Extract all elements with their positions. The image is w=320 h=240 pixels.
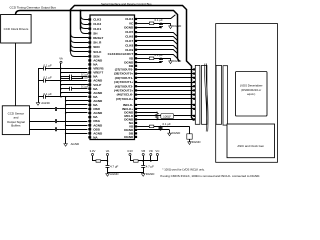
svg-text:DGND: DGND [146,172,155,176]
svg-text:CLK5: CLK5 [125,30,133,34]
ferrite bead FB3 [149,125,154,128]
receiver board boundary box [216,24,278,163]
junction VA rail rows [60,68,62,70]
ferrite bead FB4 [96,160,101,162]
svg-text:AGND: AGND [41,101,50,105]
wire R1 top row [137,112,157,114]
wire DGND pin row [137,27,161,29]
wire bead to DGND corner 2 [154,58,171,60]
svg-text:AGND: AGND [71,142,80,146]
svg-text:If using CMOS INCLK, 100Ω is r: If using CMOS INCLK, 100Ω is removed and… [160,174,260,178]
wire DGND pin row 2 [137,62,161,64]
svg-text:3.3V: 3.3V [127,149,133,153]
svg-text:0.1 µF: 0.1 µF [155,18,163,22]
cable ferrule F2 [216,65,221,124]
wire row 76.6 to pin [81,76,88,78]
CCD Sensor and Output Signal Buffers block [2,106,29,135]
wire VA rail to AGND pin row [61,84,88,86]
svg-text:VA: VA [106,149,110,153]
wire R1 bottom row to connector [137,119,195,121]
capacitor C1 0.1uF [159,23,163,27]
ground DGND (VD) [169,59,182,64]
IC left pin pads [88,18,91,138]
junction R1 [156,112,158,114]
ground AGND (rail) [36,101,50,105]
IC right pin labels [108,17,134,139]
LVDS Deserializer block [236,72,268,117]
ground AGND (rail2) [64,142,79,146]
wire VB down [143,156,145,164]
svg-text:VA: VA [59,57,63,61]
capacitor C14 4.7uF [106,163,110,170]
svg-text:equiv.): equiv.) [247,92,255,96]
terminal VD (bottom) [149,149,153,156]
svg-text:and: and [13,115,18,119]
IC right pin pads [135,18,138,138]
wire MCLK row to connector [137,115,195,117]
capacitor C4 4.7uF [187,126,192,140]
ground DGND (supply) [141,172,154,176]
wire VA down [107,156,109,164]
svg-text:VD: VD [149,149,153,153]
wire C6 to VCLP pin [51,80,88,82]
wire C7 row to AGND pin [51,96,88,98]
svg-text:SCLK: SCLK [93,50,102,54]
wire VC pin [137,23,149,25]
capacitor C3 0.1uF [159,126,163,129]
svg-text:0.1 µF: 0.1 µF [155,53,163,57]
connector J2 [223,66,228,125]
wire C10 to pin [81,88,88,90]
wire 3.3V-2 to bead5 [130,156,132,161]
AGND rail 2 [65,97,67,143]
ASIC and Clock Gen block [227,124,275,158]
ground DGND (VC) [169,24,182,29]
svg-text:CLK6: CLK6 [125,35,133,39]
analog-digital ground tie wire [108,172,144,174]
svg-text:VC: VC [155,149,159,153]
serial bus taps to RESET SH_R SDO SCLK SEN [71,33,89,56]
twisted pair cable [205,64,209,132]
wire VA rail to NA pin row [61,92,88,94]
svg-text:0.1 µF: 0.1 µF [44,92,52,96]
svg-text:* 100Ω used for LVDS INCLK onl: * 100Ω used for LVDS INCLK only. [162,168,204,172]
svg-text:CCD Timing Generator Output Bu: CCD Timing Generator Output Bus [10,5,57,9]
svg-text:4.7 µF: 4.7 µF [146,165,154,169]
CCD timing bus wire [16,11,180,62]
terminal VA (bottom) [106,149,110,156]
bus taps to CLK3 CLK2 CLK1 SH [81,15,89,34]
terminal 3.3V (analog) [90,149,96,156]
ground DGND (VD2) [168,131,181,136]
LVDS TXOUT/TXCLK/INCLK wires to connector [137,70,195,109]
svg-text:DGND: DGND [192,140,201,144]
svg-text:0.1 µF: 0.1 µF [163,122,171,126]
svg-text:AGND: AGND [110,172,119,176]
wire C5 to VREFB pin [51,68,88,70]
svg-text:DGND: DGND [124,135,134,139]
junction AGND rail2 pins [65,100,67,102]
bus taps from CLK4-CLK10 to timing bus [137,15,177,59]
svg-text:RESET: RESET [93,36,103,40]
wire C14 to gnd line [107,170,109,173]
wire VA rail to VREFT pin [61,72,87,74]
resistor R1 100 ohm [156,112,159,119]
capacitor C9 0.1uF [61,77,81,81]
svg-text:DGND: DGND [173,59,182,63]
ferrite bead FB2 [149,57,154,60]
cable ferrule F1 [202,65,207,124]
svg-text:ASIC and Clock Gen: ASIC and Clock Gen [237,144,264,148]
wire 3.3V to bead4 [92,156,94,161]
svg-text:DGND: DGND [172,131,181,135]
svg-text:0.1 µF: 0.1 µF [81,85,89,89]
svg-text:3.3V: 3.3V [90,149,96,153]
svg-text:SH: SH [93,31,97,35]
capacitor C2 0.1uF [159,58,163,62]
wire bead5 to rails [138,160,157,162]
AGND rail left [38,69,40,102]
svg-text:100Ω*: 100Ω* [163,115,172,119]
svg-text:CLK9: CLK9 [125,48,133,52]
R1 label box 100 ohm [161,114,174,119]
svg-text:DGND: DGND [124,26,134,30]
svg-text:Buffers: Buffers [11,124,21,128]
svg-text:SH_R: SH_R [93,41,102,45]
junction C3 [160,126,162,128]
VA rail [60,63,62,97]
connector J1 pin pads [193,68,195,120]
wire rail2 to pin 100.9 [66,100,89,102]
svg-text:0.1 µF: 0.1 µF [44,76,52,80]
wire bead4 to VA node [101,160,108,162]
svg-text:CLK7: CLK7 [125,39,133,43]
wire bead3 out [154,126,190,128]
svg-text:CLK8: CLK8 [125,43,133,47]
wire clock-drivers to sensor [15,43,17,106]
wire AGND pin stubs [66,105,88,134]
ferrite bead FB5 [134,160,139,162]
capacitor C15 4.7uF [141,163,145,170]
capacitor C8 0.1uF [61,75,81,79]
svg-text:0.1 µF: 0.1 µF [44,64,52,68]
junction VA node [107,160,109,162]
svg-text:0.1 µF: 0.1 µF [81,75,89,79]
coupling capacitors C11-C13 OSR/OSG/OSB [30,107,88,131]
ferrite bead FB1 [149,22,154,25]
IC left pin labels [93,18,104,140]
svg-text:(47)TXCLK+: (47)TXCLK+ [116,97,134,101]
terminal 3.3V (digital) [127,149,133,156]
wire C15 to gnd line [143,170,145,173]
terminal VB [141,149,145,156]
CCD bus junction at clock tap riser [80,10,82,12]
CCD Clock Drivers block [1,15,32,44]
junction VA rail extra [60,84,62,86]
svg-text:DGND: DGND [173,24,182,28]
AFE IC U1 body [90,15,135,140]
wire VD pin [137,58,149,60]
svg-text:CLK3: CLK3 [93,18,101,22]
wire VD2 pin [137,126,149,128]
capacitor C10 0.1uF [61,87,81,91]
CCD bus clock tap riser [80,11,82,30]
connector J1 [195,65,200,124]
ground AGND (supply) [106,172,119,176]
junction digital rail [142,160,144,162]
wire DGND pin row 3 [137,129,169,131]
svg-text:VB: VB [141,149,145,153]
VA terminal [59,57,63,64]
svg-text:SDO: SDO [93,45,100,49]
junction VC cap [160,23,162,25]
capacitors C5-C7 0.1uF on AGND rail [38,67,51,99]
svg-text:CCD Clock Drivers: CCD Clock Drivers [4,27,29,31]
svg-text:CLK1: CLK1 [93,27,101,31]
ground DGND (C4) [188,140,201,145]
wire bead to DGND corner [154,23,171,25]
svg-text:CLK2: CLK2 [93,22,101,26]
svg-text:NA: NA [93,135,98,139]
wire VD down [150,156,152,161]
serial bus wire [71,6,194,121]
svg-text:4.7 µF: 4.7 µF [110,165,118,169]
wire VC down [157,156,159,161]
junction VD cap [160,58,162,60]
terminal VC (bottom) [155,149,159,156]
